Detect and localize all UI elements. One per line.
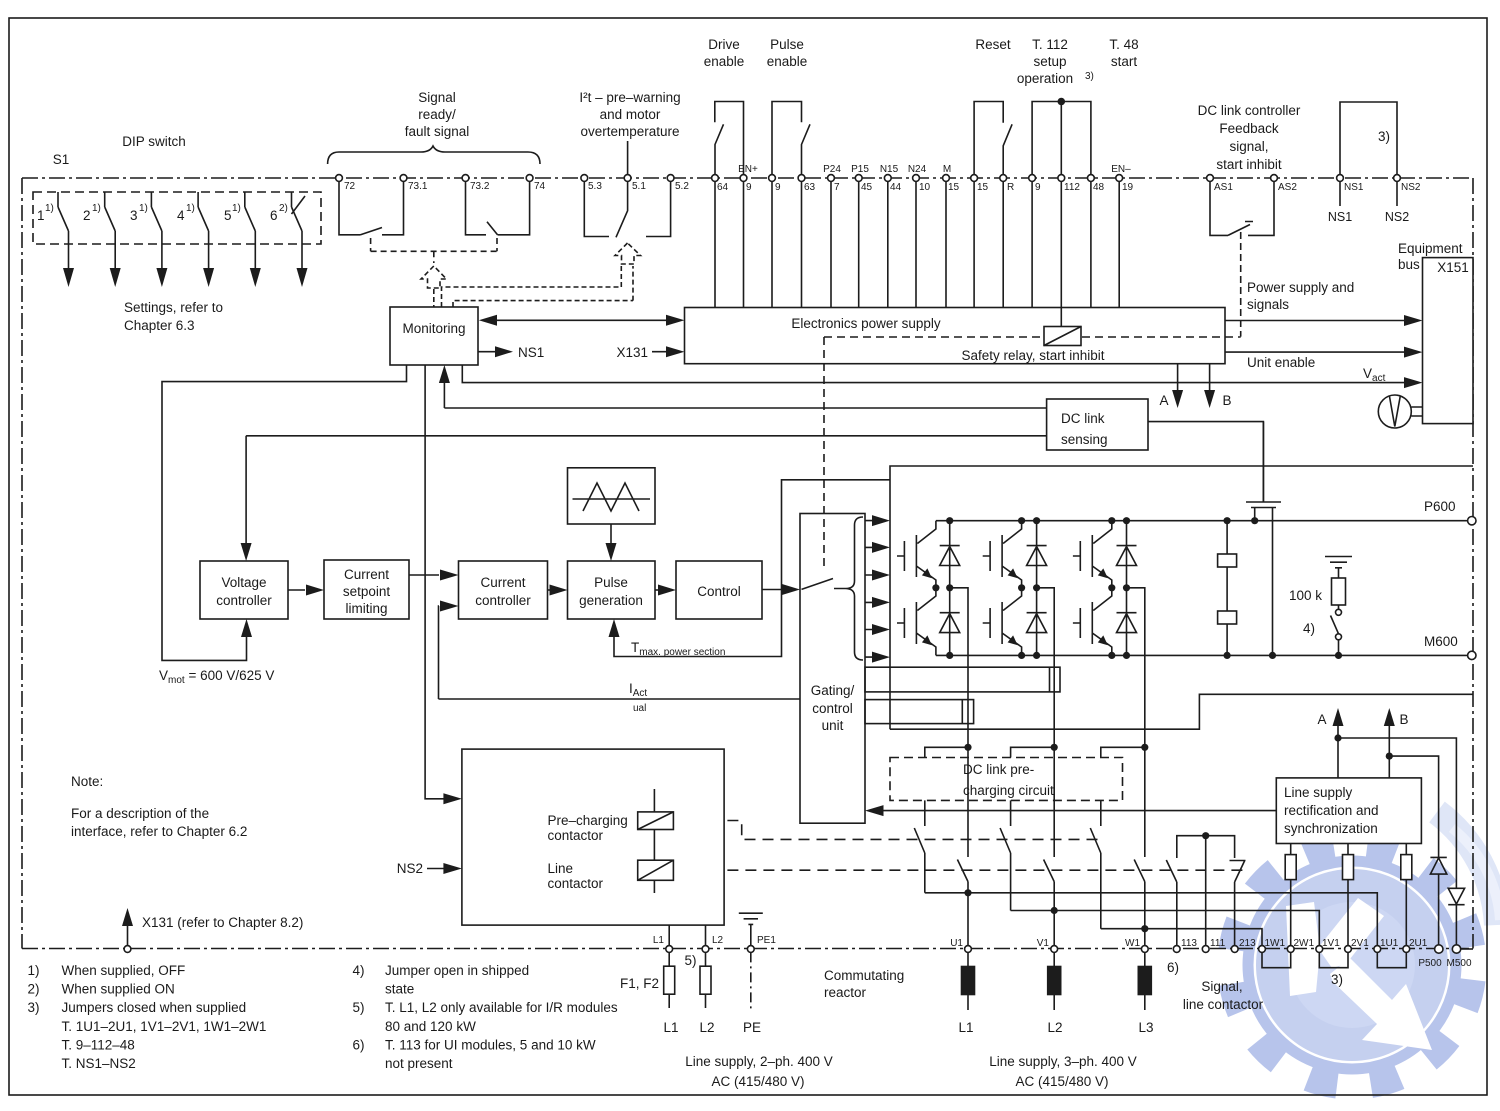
svg-text:T. NS1–NS2: T. NS1–NS2 (62, 1056, 136, 1071)
NS1 NS2 jumper bracket (1340, 102, 1397, 175)
precharge branch W (1090, 800, 1262, 945)
svg-text:enable: enable (767, 54, 808, 69)
NS1 stub below (1339, 182, 1341, 207)
arrowhead NS2 into box (443, 863, 462, 874)
svg-text:15: 15 (977, 182, 989, 193)
jumper 1V1 2V1 (1319, 952, 1348, 967)
svg-text:B: B (1222, 393, 1231, 408)
Monitoring block (390, 307, 478, 365)
M500 link to frame (1460, 948, 1473, 950)
IGBT W lower (1073, 588, 1112, 656)
current sensor V (865, 667, 1060, 692)
DC link sensing output wire to chopper (1148, 422, 1263, 502)
svg-text:NS1: NS1 (518, 345, 544, 360)
commutating reactor L2 (1053, 952, 1055, 1010)
svg-text:Line supply, 2–ph. 400 V: Line supply, 2–ph. 400 V (685, 1054, 833, 1069)
diode U upper (940, 521, 960, 588)
svg-text:63: 63 (804, 182, 816, 193)
wire Control to gating contact (762, 589, 784, 591)
gating inhibit contact blade (802, 579, 847, 590)
Gating control unit block (800, 514, 865, 824)
diode V lower (1027, 588, 1047, 656)
svg-text:3): 3) (1085, 71, 1094, 82)
svg-text:7: 7 (834, 182, 840, 193)
svg-text:L3: L3 (1138, 1020, 1153, 1035)
X151 equipment bus block (1423, 258, 1474, 424)
svg-text:19: 19 (1122, 182, 1134, 193)
svg-text:DC link pre-: DC link pre- (963, 762, 1034, 777)
svg-text:Chapter 6.3: Chapter 6.3 (124, 318, 195, 333)
dashed route Monitoring to I2t arrow lower (453, 266, 633, 307)
arrowhead B up (1384, 708, 1395, 726)
svg-text:B: B (1399, 712, 1408, 727)
svg-text:Signal,: Signal, (1201, 979, 1242, 994)
svg-text:PE1: PE1 (757, 935, 776, 946)
svg-text:T. 1U1–2U1, 1V1–2V1, 1W1–2W1: T. 1U1–2U1, 1V1–2V1, 1W1–2W1 (62, 1019, 267, 1034)
wire A to rectifier box (1338, 714, 1456, 888)
svg-text:M500: M500 (1446, 958, 1471, 969)
svg-text:74: 74 (534, 181, 546, 192)
dashed link AS contact to safety relay (1240, 232, 1242, 337)
svg-text:and motor: and motor (600, 107, 661, 122)
svg-text:111: 111 (1210, 938, 1226, 949)
svg-text:L1: L1 (958, 1020, 973, 1035)
svg-text:Line supply: Line supply (1284, 785, 1353, 800)
precharge tap V (1011, 747, 1055, 757)
svg-text:Feedback: Feedback (1219, 121, 1279, 136)
svg-text:L2: L2 (712, 935, 724, 946)
svg-text:synchronization: synchronization (1284, 821, 1378, 836)
DIP switch 1 (58, 192, 69, 272)
Voltage controller block (200, 561, 288, 619)
svg-text:3): 3) (1378, 129, 1390, 144)
junction dots precharge taps (964, 744, 971, 751)
line supply rectification block (1276, 778, 1421, 844)
relay contact 73.2-74 (466, 182, 530, 235)
svg-text:9: 9 (1035, 182, 1041, 193)
svg-text:PE: PE (743, 1020, 761, 1035)
P600 rail (936, 520, 1469, 522)
fan symbol (1378, 395, 1422, 428)
IGBT U lower (897, 588, 936, 656)
wire Monitoring down to contactor box (425, 365, 446, 799)
svg-text:9: 9 (775, 182, 781, 193)
svg-text:generation: generation (579, 593, 643, 608)
svg-text:1): 1) (186, 203, 195, 214)
svg-text:3): 3) (28, 1000, 40, 1015)
svg-text:5): 5) (353, 1000, 365, 1015)
arrowhead feed into gating (865, 805, 884, 816)
arrowhead A up (1333, 708, 1344, 726)
safety relay coil (1044, 327, 1081, 346)
svg-text:NS2: NS2 (397, 861, 423, 876)
svg-text:limiting: limiting (345, 601, 387, 616)
svg-text:L2: L2 (1047, 1020, 1062, 1035)
svg-text:2: 2 (83, 208, 91, 223)
terminal circles top row (336, 175, 343, 182)
svg-text:80 and 120 kW: 80 and 120 kW (385, 1019, 476, 1034)
svg-text:start: start (1111, 54, 1138, 69)
NS2 wire into contactor box (427, 868, 446, 870)
diode on M500 leg (1448, 888, 1464, 945)
wire CC to PG (548, 589, 552, 591)
svg-text:controller: controller (475, 593, 531, 608)
diode W upper (1117, 521, 1137, 588)
B wire EPS down (1209, 364, 1211, 394)
svg-text:Jumpers closed when supplied: Jumpers closed when supplied (62, 1000, 247, 1015)
svg-text:T. 113 for UI modules, 5 and 1: T. 113 for UI modules, 5 and 10 kW (385, 1037, 596, 1052)
fuse drop 2U1 (1405, 844, 1407, 946)
gate arrowheads (872, 515, 890, 526)
commutating reactor L1 (967, 952, 969, 1010)
DIP switch 4 (198, 192, 209, 272)
svg-text:112: 112 (1064, 182, 1080, 193)
X131 bottom terminal arrow (127, 920, 129, 946)
precharge branch V (1000, 800, 1319, 945)
switch 4) discharge (1338, 605, 1340, 609)
svg-text:6): 6) (1167, 960, 1179, 975)
T112 jumper bracket 9-112-48 (1032, 102, 1091, 175)
svg-text:3): 3) (1331, 972, 1343, 987)
svg-text:2): 2) (279, 203, 288, 214)
svg-text:Power supply and: Power supply and (1247, 280, 1354, 295)
brace signal ready group (328, 146, 540, 164)
svg-text:line contactor: line contactor (1183, 997, 1264, 1012)
svg-text:V1: V1 (1037, 938, 1050, 949)
svg-text:state: state (385, 982, 414, 997)
resistor 100k (1338, 568, 1340, 578)
svg-text:F1, F2: F1, F2 (620, 976, 659, 991)
arrowhead power supply into X151 (1404, 315, 1423, 326)
junction dot aux chain (1202, 832, 1209, 839)
svg-text:L1: L1 (663, 1020, 678, 1035)
svg-text:EN+: EN+ (738, 164, 758, 175)
T112 junction dot (1058, 98, 1066, 106)
svg-text:S1: S1 (53, 152, 70, 167)
DC link sensing to Monitoring wire (444, 376, 1046, 408)
wire VC to CSL (288, 589, 305, 591)
DC link precharging dashed box (890, 758, 1123, 801)
svg-text:1V1: 1V1 (1322, 938, 1340, 949)
svg-text:Note:: Note: (71, 774, 103, 789)
line contactor coil (638, 860, 674, 880)
svg-text:A: A (1317, 712, 1326, 727)
PE1 earth symbol (739, 913, 763, 945)
DIP switch dashed enclosure S1 (33, 192, 321, 244)
feed wire rectifier to gating (883, 810, 1276, 812)
svg-text:signals: signals (1247, 297, 1289, 312)
L1 wire from contactor box (668, 925, 670, 946)
svg-text:73.2: 73.2 (470, 181, 490, 192)
svg-text:charging circuit: charging circuit (963, 783, 1054, 798)
arrowhead CSL to CC (440, 570, 459, 581)
DIP switch 3 (151, 192, 162, 272)
junction dots phase taps (964, 889, 971, 896)
svg-text:ready/: ready/ (418, 107, 456, 122)
svg-text:NS1: NS1 (1344, 182, 1364, 193)
DIP switch 2 (105, 192, 116, 272)
fuse drop 2W1 (1290, 844, 1292, 946)
svg-text:Gating/: Gating/ (811, 683, 855, 698)
dashed safety relay line right to AS contact (1082, 336, 1241, 338)
fuse F2 (705, 952, 707, 1008)
svg-text:DIP switch: DIP switch (122, 134, 186, 149)
open arrow to I2t contact (615, 243, 641, 264)
diode U lower (940, 588, 960, 656)
arrowhead Control to gating (782, 584, 800, 595)
NS1 output from Monitoring (478, 351, 495, 353)
DIP switch 6 (292, 192, 306, 272)
commutating reactor L3 (1144, 952, 1146, 1010)
svg-text:Jumper open in shipped: Jumper open in shipped (385, 963, 529, 978)
dashed safety relay line left (824, 336, 1044, 338)
svg-text:1): 1) (139, 203, 148, 214)
triangle wave generator box (568, 468, 656, 524)
arrowhead Monitoring-EPS right (666, 315, 685, 326)
arrowhead into voltage controller top (241, 543, 252, 561)
svg-text:N24: N24 (908, 164, 927, 175)
arrowhead X131 into EPS (666, 346, 685, 357)
precharging contactor coil (653, 789, 655, 812)
wire PG to Control (655, 589, 660, 591)
phase wire W (1127, 588, 1145, 946)
svg-text:4): 4) (353, 963, 365, 978)
svg-text:DC link: DC link (1061, 411, 1105, 426)
Control block (676, 561, 762, 619)
svg-text:T. 48: T. 48 (1109, 37, 1138, 52)
DIP switch 5 (245, 192, 256, 272)
svg-text:9: 9 (746, 182, 752, 193)
arrowhead wave to PG (606, 543, 617, 561)
arrowhead B down (1204, 390, 1215, 408)
svg-text:unit: unit (822, 718, 844, 733)
svg-text:2W1: 2W1 (1294, 938, 1315, 949)
IGBT W upper (1073, 521, 1112, 588)
diode on P500 leg (1430, 857, 1446, 945)
svg-text:72: 72 (344, 181, 356, 192)
T112 line to safety relay (1060, 102, 1062, 328)
interface boundary dash-dot bottom (22, 948, 1473, 950)
svg-text:M: M (943, 164, 951, 175)
power section box outline (890, 466, 1473, 729)
gate drive wires (866, 521, 875, 658)
arrowhead PG to Control (658, 585, 676, 596)
svg-text:Line: Line (548, 861, 574, 876)
svg-text:10: 10 (919, 182, 931, 193)
Vact wire Monitoring to X151 (462, 365, 1408, 383)
emitter arrowheads (922, 568, 932, 578)
svg-text:3: 3 (130, 208, 138, 223)
svg-text:4): 4) (1303, 621, 1315, 636)
Pulse generation block (568, 561, 656, 619)
arrowhead A down (1172, 390, 1183, 408)
svg-text:1): 1) (92, 203, 101, 214)
DC link capacitor 2 (1226, 567, 1228, 611)
wire CSL to CC (409, 574, 439, 576)
X131 input to EPS (652, 351, 669, 353)
svg-text:1U1: 1U1 (1380, 938, 1399, 949)
AS1 AS2 contact (1210, 182, 1274, 236)
svg-text:Voltage: Voltage (221, 575, 266, 590)
svg-text:control: control (812, 701, 853, 716)
mechanical linkage dashed signal contacts (371, 238, 497, 263)
svg-text:P15: P15 (851, 164, 869, 175)
svg-text:X131: X131 (616, 345, 648, 360)
precharge tap W (1101, 747, 1145, 757)
double arrow Monitoring to EPS (494, 319, 670, 321)
wire B to rectifier box (1389, 714, 1438, 857)
open arrow to Monitoring 1 (421, 266, 447, 288)
EPS to X151 unit enable wire (1225, 351, 1408, 353)
Current controller block (459, 561, 548, 619)
svg-text:Equipment: Equipment (1398, 241, 1463, 256)
current sensor U (865, 700, 974, 724)
svg-text:ual: ual (633, 703, 646, 714)
svg-text:M600: M600 (1424, 634, 1458, 649)
IGBT U upper (897, 521, 936, 588)
terminal drop 64 (714, 182, 716, 308)
relay contact 72-73.1 (339, 182, 404, 235)
svg-text:AS1: AS1 (1214, 182, 1233, 193)
precharge tap U (925, 747, 968, 757)
svg-text:AC (415/480 V): AC (415/480 V) (1015, 1074, 1108, 1089)
svg-text:T. 9–112–48: T. 9–112–48 (62, 1037, 135, 1052)
interface boundary dash-dot left (21, 178, 23, 949)
svg-text:2V1: 2V1 (1351, 938, 1369, 949)
jumper 1W1 2W1 (1262, 952, 1291, 967)
svg-text:64: 64 (717, 182, 729, 193)
fuse F1 (668, 952, 670, 1008)
pulse enable contact (772, 102, 810, 182)
interface boundary dash-dot top (22, 177, 1473, 179)
Electronics power supply block (685, 308, 1226, 364)
svg-text:signal,: signal, (1229, 139, 1268, 154)
svg-text:73.1: 73.1 (408, 181, 428, 192)
svg-text:X131 (refer to Chapter 8.2): X131 (refer to Chapter 8.2) (142, 915, 303, 930)
diode W lower (1117, 588, 1137, 656)
svg-text:NS2: NS2 (1385, 210, 1409, 224)
svg-text:100 k: 100 k (1289, 588, 1322, 603)
svg-text:6: 6 (270, 208, 278, 223)
svg-text:44: 44 (890, 182, 902, 193)
arrowhead IAct into CC (440, 601, 459, 612)
I2t changeover contact 5.3 5.1 5.2 (584, 182, 670, 238)
svg-text:EN–: EN– (1111, 164, 1131, 175)
terminal circles P600 M600 (1468, 517, 1476, 525)
svg-text:For a description of the: For a description of the (71, 806, 209, 821)
dashed linkage line contactor (673, 869, 1247, 871)
aux contact chain 113 111 213 (1166, 836, 1245, 946)
svg-text:5): 5) (685, 953, 697, 968)
fuse drop 2V1 (1347, 844, 1349, 946)
svg-text:X151: X151 (1437, 260, 1469, 275)
DIP switch output arrowheads (63, 268, 74, 287)
svg-text:213: 213 (1239, 938, 1256, 949)
Tmax wire power section to PG (614, 480, 890, 657)
arrowhead Monitoring-EPS left (479, 315, 497, 326)
watermark gear logo (1217, 812, 1500, 1100)
diode V upper (1027, 521, 1047, 588)
svg-text:setpoint: setpoint (343, 584, 391, 599)
wire wave box to PG (610, 524, 612, 547)
arrowhead into contactor box from Monitoring (443, 793, 462, 804)
svg-text:L2: L2 (699, 1020, 714, 1035)
svg-text:5.3: 5.3 (588, 181, 602, 192)
arrowhead VC to CSL (306, 585, 324, 596)
Current setpoint limiting block (324, 560, 409, 619)
DC link sensing to voltage controller wire (246, 436, 1047, 550)
arrowhead CC to PG (550, 585, 568, 596)
NS2 stub below (1396, 182, 1398, 207)
phase wire V (1037, 588, 1055, 946)
DC link capacitor 1 (1226, 521, 1228, 554)
svg-text:AC (415/480 V): AC (415/480 V) (711, 1074, 804, 1089)
svg-text:T. L1, L2 only available for I: T. L1, L2 only available for I/R modules (385, 1000, 618, 1015)
arrowhead Vact into X151 (1404, 377, 1423, 388)
phase wire U (950, 588, 968, 946)
svg-text:1): 1) (28, 963, 40, 978)
svg-text:U1: U1 (950, 938, 963, 949)
svg-text:1: 1 (37, 208, 45, 223)
svg-text:Drive: Drive (708, 37, 740, 52)
svg-text:NS1: NS1 (1328, 210, 1352, 224)
svg-text:When supplied ON: When supplied ON (62, 982, 175, 997)
svg-text:P600: P600 (1424, 499, 1456, 514)
terminal drop wires into electronics power supply (715, 182, 1119, 308)
svg-text:setup: setup (1033, 54, 1066, 69)
svg-text:overtemperature: overtemperature (580, 124, 679, 139)
junction dots power rails (946, 517, 953, 524)
chassis ground 100k (1325, 557, 1352, 568)
svg-text:NS2: NS2 (1401, 182, 1421, 193)
svg-text:Signal: Signal (418, 90, 456, 105)
svg-text:Reset: Reset (975, 37, 1011, 52)
svg-text:L1: L1 (653, 935, 665, 946)
svg-text:T. 112: T. 112 (1032, 37, 1068, 52)
svg-text:4: 4 (177, 208, 185, 223)
svg-text:A: A (1159, 393, 1168, 408)
arrowhead unit enable into X151 (1404, 347, 1423, 358)
IAct feedback wire (439, 606, 801, 699)
svg-text:P500: P500 (1418, 958, 1442, 969)
svg-text:Pre–charging: Pre–charging (548, 813, 628, 828)
svg-text:45: 45 (861, 182, 873, 193)
dashed stem arrow1 to Monitoring (433, 289, 435, 307)
drive enable contact (715, 102, 744, 182)
svg-text:reactor: reactor (824, 985, 867, 1000)
dashed drop to gating inhibit contact (823, 337, 825, 568)
svg-text:1): 1) (232, 203, 241, 214)
svg-text:6): 6) (353, 1037, 365, 1052)
svg-text:5.1: 5.1 (632, 181, 646, 192)
svg-text:not present: not present (385, 1056, 453, 1071)
precharge branch U (914, 800, 1377, 945)
arrowhead into voltage controller bottom (241, 619, 252, 637)
svg-text:contactor: contactor (548, 876, 604, 891)
PE1 dash line down (750, 952, 752, 1010)
contactor box (462, 749, 724, 925)
dashed route Monitoring to I2t arrow upper (442, 266, 622, 307)
svg-text:2): 2) (28, 982, 40, 997)
svg-text:contactor: contactor (548, 828, 604, 843)
svg-text:2U1: 2U1 (1409, 938, 1428, 949)
dashed linkage precharging contactor (673, 821, 1104, 840)
svg-text:113: 113 (1181, 938, 1197, 949)
svg-text:Monitoring: Monitoring (402, 321, 465, 336)
svg-text:bus: bus (1398, 257, 1420, 272)
svg-text:Unit enable: Unit enable (1247, 355, 1315, 370)
IGBT V lower (983, 588, 1022, 656)
